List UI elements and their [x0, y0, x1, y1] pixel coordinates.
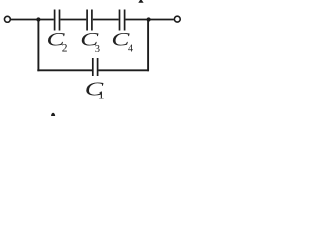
svg-text:3: 3: [95, 44, 100, 55]
wire: bottom left segment: [37, 69, 92, 71]
label C1: [85, 79, 105, 101]
wire: left vertical branch: [37, 20, 39, 72]
cropped glyph fragment at bottom edge: [51, 113, 55, 119]
wire: C2 to C3: [60, 19, 86, 21]
node B (top-right junction dot): [147, 17, 151, 21]
capacitor C1: [93, 58, 98, 76]
capacitor C2: [55, 10, 60, 31]
wire: left terminal to C2 left plate: [11, 19, 54, 21]
svg-text:2: 2: [62, 42, 68, 54]
label C3: [80, 29, 100, 55]
capacitor C3: [87, 10, 92, 31]
wire: bottom right segment: [98, 69, 149, 71]
terminal T1 (left open circle): [4, 16, 10, 22]
svg-text:4: 4: [128, 43, 133, 54]
cropped glyph fragment at top edge: [138, 0, 143, 3]
capacitor C4: [120, 10, 125, 31]
label C2: [47, 29, 68, 54]
svg-text:1: 1: [98, 89, 105, 101]
wire: C3 to C4: [93, 19, 119, 21]
label C4: [111, 29, 133, 54]
node A (top-left junction dot): [36, 17, 40, 21]
wire: right vertical branch: [147, 20, 149, 72]
terminal T2 (right open circle): [174, 16, 180, 22]
wire: C4 to right terminal: [126, 19, 174, 21]
